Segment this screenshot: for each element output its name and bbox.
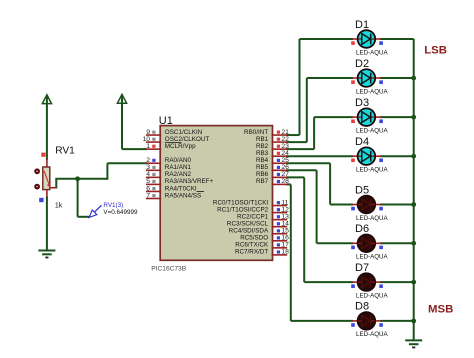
svg-text:D7: D7	[355, 262, 369, 274]
svg-text:RA2/AN2: RA2/AN2	[165, 171, 192, 178]
svg-text:RC5/SDO: RC5/SDO	[240, 235, 268, 242]
svg-text:16: 16	[281, 235, 289, 242]
svg-text:OSC1/CLKIN: OSC1/CLKIN	[165, 129, 203, 136]
svg-text:RB0/INT: RB0/INT	[244, 129, 268, 136]
svg-text:11: 11	[281, 199, 288, 206]
svg-text:9: 9	[146, 129, 150, 136]
svg-text:RA4/T0CKI: RA4/T0CKI	[165, 185, 197, 192]
svg-text:V=0.649999: V=0.649999	[103, 209, 138, 216]
svg-text:LED-AQUA: LED-AQUA	[356, 331, 389, 338]
svg-text:LED-AQUA: LED-AQUA	[356, 167, 389, 174]
svg-text:RB2: RB2	[256, 143, 269, 150]
svg-text:12: 12	[281, 206, 289, 213]
svg-text:27: 27	[281, 171, 289, 178]
svg-text:1: 1	[146, 143, 150, 150]
svg-text:LED-AQUA: LED-AQUA	[356, 127, 389, 134]
svg-text:RA0/AN0: RA0/AN0	[165, 157, 192, 164]
svg-text:18: 18	[281, 249, 289, 256]
svg-text:MSB: MSB	[428, 304, 453, 316]
svg-text:10: 10	[142, 136, 150, 143]
svg-text:25: 25	[281, 157, 289, 164]
svg-text:RB7: RB7	[256, 178, 269, 185]
svg-text:5: 5	[146, 178, 150, 185]
svg-text:RB1: RB1	[256, 136, 269, 143]
svg-text:D2: D2	[355, 58, 369, 70]
svg-text:RA3/AN3/VREF+: RA3/AN3/VREF+	[165, 178, 214, 185]
svg-text:D1: D1	[355, 19, 369, 31]
svg-text:MCLR/Vpp: MCLR/Vpp	[165, 143, 196, 150]
svg-text:PIC16C73B: PIC16C73B	[151, 265, 186, 272]
svg-text:RV1(3): RV1(3)	[103, 202, 123, 209]
svg-text:22: 22	[281, 136, 289, 143]
svg-text:4: 4	[146, 171, 150, 178]
svg-text:6: 6	[146, 185, 150, 192]
svg-text:D6: D6	[355, 223, 369, 235]
svg-text:LED-AQUA: LED-AQUA	[356, 88, 389, 95]
svg-text:RC4/SDI/SDA: RC4/SDI/SDA	[229, 228, 269, 235]
svg-text:D5: D5	[355, 184, 369, 196]
svg-text:1k: 1k	[55, 202, 63, 209]
svg-text:D3: D3	[355, 97, 369, 109]
svg-text:LED-AQUA: LED-AQUA	[356, 49, 389, 56]
svg-text:14: 14	[281, 221, 289, 228]
svg-text:RA1/AN1: RA1/AN1	[165, 164, 192, 171]
svg-text:28: 28	[281, 178, 289, 185]
svg-text:D8: D8	[355, 301, 369, 313]
svg-text:RC6/TX/CK: RC6/TX/CK	[235, 242, 269, 249]
svg-text:U1: U1	[159, 115, 173, 127]
svg-text:RC0/T1OSO/T1CKI: RC0/T1OSO/T1CKI	[213, 199, 269, 206]
svg-text:LED-AQUA: LED-AQUA	[356, 254, 389, 261]
svg-text:21: 21	[281, 129, 289, 136]
svg-text:RC3/SCK/SCL: RC3/SCK/SCL	[227, 221, 269, 228]
svg-text:2: 2	[146, 157, 150, 164]
svg-text:3: 3	[146, 164, 150, 171]
svg-text:D4: D4	[355, 136, 369, 148]
svg-text:RB4: RB4	[256, 157, 269, 164]
svg-text:RB3: RB3	[256, 150, 269, 157]
svg-text:LED-AQUA: LED-AQUA	[356, 215, 389, 222]
svg-text:24: 24	[281, 150, 289, 157]
svg-text:23: 23	[281, 143, 289, 150]
svg-text:RC1/T1OSI/CCP2: RC1/T1OSI/CCP2	[217, 206, 269, 213]
svg-text:RB6: RB6	[256, 171, 269, 178]
svg-text:RC7/RX/DT: RC7/RX/DT	[235, 249, 268, 256]
svg-text:13: 13	[281, 213, 289, 220]
svg-text:RC2/CCP1: RC2/CCP1	[237, 213, 269, 220]
svg-text:17: 17	[281, 242, 289, 249]
svg-text:RA5/AN4/SS: RA5/AN4/SS	[165, 192, 201, 199]
svg-text:LSB: LSB	[424, 44, 447, 56]
svg-text:RV1: RV1	[55, 145, 75, 156]
svg-text:OSC2/CLKOUT: OSC2/CLKOUT	[165, 136, 210, 143]
svg-text:LED-AQUA: LED-AQUA	[356, 292, 389, 299]
svg-text:7: 7	[146, 192, 150, 199]
svg-text:RB5: RB5	[256, 164, 269, 171]
svg-text:15: 15	[281, 228, 289, 235]
svg-text:26: 26	[281, 164, 289, 171]
